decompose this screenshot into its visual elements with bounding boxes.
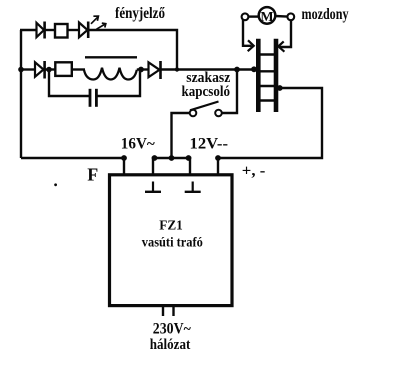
- terminal symbol left: [145, 182, 161, 192]
- wire left vertical bus: [20, 30, 22, 158]
- wire LED to right corner: [88, 30, 177, 70]
- diode D1: [37, 22, 45, 39]
- svg-text:fényjelző: fényjelző: [115, 5, 165, 22]
- node LED branch junction: [175, 67, 179, 71]
- svg-text:mozdony: mozdony: [302, 6, 349, 23]
- node switch tap: [234, 67, 240, 73]
- wire D3 to R2: [45, 68, 56, 70]
- inductor L1: [84, 57, 137, 79]
- diode D3: [35, 61, 45, 79]
- wire D1 to R1: [45, 29, 56, 31]
- rail left: [256, 39, 261, 112]
- wire switch left to bridge: [172, 113, 190, 156]
- node bridge right: [186, 155, 192, 161]
- svg-text:FZ1: FZ1: [159, 217, 183, 232]
- wire bridge link: [153, 158, 190, 175]
- sleeper 2: [258, 70, 276, 72]
- svg-text:kapcsoló: kapcsoló: [182, 84, 231, 100]
- stray mark: [54, 183, 57, 186]
- wire motor left lead: [248, 15, 258, 17]
- wire F feed: [21, 158, 124, 175]
- resistor R2: [55, 62, 72, 76]
- wire motor right lead: [275, 15, 287, 18]
- svg-text:16V~: 16V~: [121, 135, 156, 152]
- node capacitor tap left: [46, 67, 52, 73]
- node left rail feed: [251, 66, 257, 72]
- node F terminal: [121, 155, 127, 161]
- wire mains stub right: [172, 306, 174, 317]
- transformer FZ1 box: [110, 175, 233, 306]
- wire motor left pickup: [243, 20, 252, 46]
- motor M mozdony: [242, 7, 295, 24]
- sleeper 3: [258, 85, 276, 87]
- wire cap branch right: [98, 70, 141, 97]
- wire cap branch left: [49, 70, 89, 97]
- node plus-minus terminal: [215, 155, 221, 161]
- capacitor C1: [89, 89, 92, 107]
- arrow left pickup: [248, 40, 254, 51]
- capacitor C1 branch: [49, 70, 140, 107]
- node bridge centre: [169, 155, 175, 161]
- LED D2 fényjelző: [79, 16, 106, 38]
- wire motor right pickup: [280, 20, 291, 47]
- svg-text:vasúti trafó: vasúti trafó: [142, 235, 203, 250]
- wire switch right up to tap: [222, 70, 237, 114]
- node junction on left bus: [18, 67, 24, 73]
- svg-text:+, -: +, -: [242, 163, 265, 180]
- svg-text:hálózat: hálózat: [150, 337, 191, 353]
- wire R1 to LED: [68, 29, 81, 31]
- svg-text:12V--: 12V--: [190, 135, 229, 152]
- wire top branch input: [20, 29, 37, 31]
- sleeper 4: [258, 99, 276, 101]
- wire mains stub left: [162, 306, 164, 317]
- terminal symbol right: [185, 182, 201, 192]
- wire main run to track: [161, 68, 258, 70]
- node bridge left: [152, 155, 158, 161]
- node capacitor tap right: [138, 67, 144, 73]
- wire R2 to L1: [72, 68, 85, 70]
- svg-text:F: F: [87, 165, 98, 185]
- wire plus-minus stub: [217, 158, 219, 175]
- sleeper 1: [258, 53, 276, 55]
- switch szakasz kapcsoló: [190, 102, 222, 117]
- arrow right pickup: [278, 41, 284, 51]
- rail right: [274, 39, 279, 112]
- wire return from right rail: [219, 88, 322, 158]
- node right rail return: [277, 85, 283, 91]
- diode D4: [149, 61, 161, 79]
- svg-text:M: M: [260, 10, 273, 25]
- svg-text:230V~: 230V~: [153, 320, 191, 337]
- wire branch2 input: [21, 68, 36, 70]
- wire L1 to D4: [137, 68, 149, 70]
- resistor R1: [55, 24, 68, 38]
